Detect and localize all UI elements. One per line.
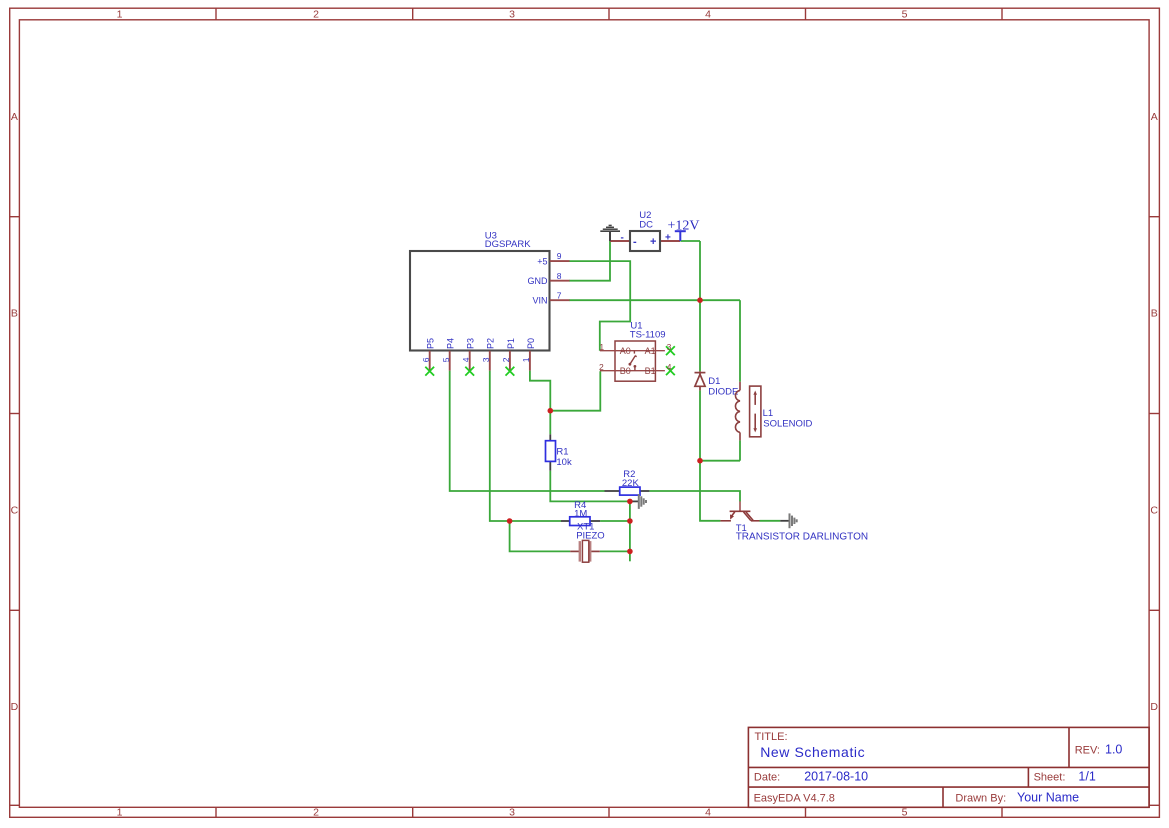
svg-text:3: 3	[509, 9, 515, 21]
svg-text:4: 4	[705, 807, 711, 819]
svg-text:R1: R1	[556, 446, 568, 457]
svg-text:D: D	[11, 701, 19, 713]
svg-text:Date:: Date:	[754, 772, 780, 784]
svg-text:2: 2	[313, 9, 319, 21]
svg-text:TS-1109: TS-1109	[630, 329, 666, 340]
svg-text:P0: P0	[526, 338, 536, 349]
svg-text:2: 2	[501, 357, 511, 362]
svg-text:New Schematic: New Schematic	[760, 744, 865, 760]
svg-text:+5: +5	[537, 256, 547, 266]
svg-text:A0: A0	[620, 346, 631, 356]
svg-text:TRANSISTOR DARLINGTON: TRANSISTOR DARLINGTON	[736, 532, 868, 543]
svg-text:+: +	[650, 236, 656, 248]
svg-text:8: 8	[557, 271, 562, 281]
svg-text:1M: 1M	[574, 509, 587, 520]
svg-text:+12V: +12V	[667, 218, 699, 233]
svg-text:22K: 22K	[622, 478, 640, 489]
svg-text:A: A	[1151, 111, 1158, 123]
svg-text:C: C	[1150, 504, 1158, 516]
svg-text:4: 4	[461, 357, 471, 362]
svg-text:5: 5	[902, 9, 908, 21]
svg-text:2: 2	[599, 362, 604, 372]
svg-text:6: 6	[421, 357, 431, 362]
svg-text:1: 1	[599, 342, 604, 352]
svg-text:C: C	[11, 504, 19, 516]
svg-text:VIN: VIN	[532, 295, 547, 305]
svg-text:5: 5	[902, 807, 908, 819]
svg-text:1.0: 1.0	[1105, 743, 1122, 757]
svg-text:3: 3	[481, 357, 491, 362]
svg-text:2017-08-10: 2017-08-10	[804, 770, 868, 784]
svg-text:1: 1	[117, 807, 123, 819]
svg-text:3: 3	[667, 342, 672, 352]
svg-text:P4: P4	[446, 338, 456, 349]
svg-text:GND: GND	[528, 276, 549, 286]
svg-text:TITLE:: TITLE:	[755, 731, 788, 743]
svg-text:+: +	[665, 232, 671, 243]
svg-text:P5: P5	[426, 338, 436, 349]
svg-text:P3: P3	[466, 338, 476, 349]
svg-text:B: B	[1151, 308, 1158, 320]
svg-text:D: D	[1150, 701, 1158, 713]
svg-text:Sheet:: Sheet:	[1034, 772, 1066, 784]
svg-text:1: 1	[521, 357, 531, 362]
svg-text:P1: P1	[506, 338, 516, 349]
svg-text:P2: P2	[486, 338, 496, 349]
svg-text:A: A	[11, 111, 18, 123]
svg-text:DGSPARK: DGSPARK	[485, 239, 531, 250]
svg-text:Your Name: Your Name	[1017, 791, 1079, 805]
svg-text:B0: B0	[620, 366, 631, 376]
svg-text:Drawn By:: Drawn By:	[955, 793, 1006, 805]
svg-text:B1: B1	[645, 366, 656, 376]
svg-text:4: 4	[705, 9, 711, 21]
svg-text:B: B	[11, 308, 18, 320]
svg-text:EasyEDA V4.7.8: EasyEDA V4.7.8	[754, 793, 835, 805]
svg-text:A1: A1	[645, 346, 656, 356]
svg-text:4: 4	[667, 362, 672, 372]
svg-text:9: 9	[557, 251, 562, 261]
svg-text:REV:: REV:	[1075, 745, 1100, 757]
svg-text:-: -	[633, 236, 637, 248]
svg-text:PIEZO: PIEZO	[576, 531, 605, 542]
svg-text:3: 3	[509, 807, 515, 819]
svg-text:5: 5	[441, 357, 451, 362]
svg-text:SOLENOID: SOLENOID	[763, 418, 812, 429]
svg-text:7: 7	[557, 290, 562, 300]
svg-text:2: 2	[313, 807, 319, 819]
svg-text:DIODE: DIODE	[708, 386, 738, 397]
svg-text:1: 1	[117, 9, 123, 21]
svg-text:1/1: 1/1	[1078, 770, 1095, 784]
svg-text:DC: DC	[639, 219, 653, 230]
svg-text:-: -	[621, 232, 624, 243]
svg-text:L1: L1	[763, 408, 774, 419]
svg-text:10k: 10k	[556, 457, 572, 468]
